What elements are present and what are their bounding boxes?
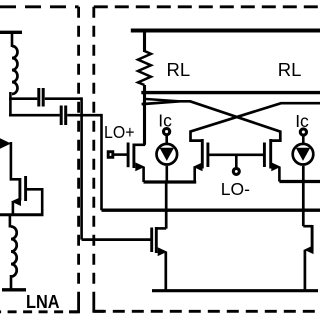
- LO+ wire to M1 gate: [114, 153, 127, 156]
- LNA box bottom-right corner piece: [69, 303, 79, 312]
- wire inductor bottom to output node: [9, 92, 12, 116]
- LO+ terminal: [108, 152, 113, 158]
- wire arrow to cascode device: [11, 142, 20, 179]
- switch M1 gate bar: [127, 143, 130, 168]
- wire rail to RL1: [143, 31, 146, 53]
- mixer box bottom-left corner piece: [94, 303, 104, 312]
- LNA dashed box top edge: [0, 5, 79, 8]
- right RF transistor channel bar: [311, 225, 314, 251]
- M1 source arrow: [135, 162, 145, 171]
- output line (long horizontal under RLs): [141, 91, 320, 94]
- cascode gate tie wire to bottom node: [26, 189, 43, 215]
- svg-text:RL: RL: [278, 59, 302, 80]
- wire node to coupling cap C1: [9, 97, 37, 100]
- common source bottom wire: [152, 289, 318, 292]
- LNA dashed box bottom edge: [0, 310, 79, 313]
- switch M2 channel bar: [201, 139, 204, 169]
- LNA dashed box right edge: [77, 7, 80, 313]
- right RF source arrow: [304, 245, 314, 254]
- wire to degeneration inductor: [9, 215, 12, 228]
- wire inductor to ground bar: [10, 275, 13, 289]
- Ic left stub: [165, 136, 168, 144]
- Ic right bottom stub / tail wire right: [302, 166, 305, 226]
- right pair source bar: [279, 180, 320, 183]
- degeneration inductor (4 loops): [11, 227, 17, 277]
- LNA bottom node wire: [0, 213, 44, 216]
- current source arrow right: [296, 148, 310, 161]
- svg-text:RL: RL: [167, 59, 191, 80]
- svg-text:LO-: LO-: [221, 179, 250, 199]
- wire RL1 bottom down to M1 drain: [143, 85, 146, 145]
- cascode node wire (long horizontal): [102, 209, 320, 212]
- svg-text:Ic: Ic: [295, 111, 309, 131]
- wire down to cascode node rail: [100, 114, 103, 210]
- M1 drain jog: [134, 144, 145, 147]
- wire C2 to cascode node: [67, 114, 101, 117]
- M1 source wire down: [142, 167, 145, 182]
- switch M2 gate bar: [206, 143, 209, 168]
- mixer VDD rail: [131, 29, 320, 33]
- switch M1 channel bar: [132, 144, 135, 169]
- tail wire left (to cascode node and RF drain): [165, 182, 168, 229]
- M2 source arrow: [193, 162, 203, 171]
- resistor RL1 zigzag: [138, 51, 151, 85]
- cross-couple diagonal 1 (left RL to M3 drain): [142, 101, 281, 140]
- capacitor C1 plates: [39, 88, 43, 107]
- cascode transistor gate bar: [24, 176, 27, 201]
- Ic right stub: [302, 136, 305, 143]
- mixer dashed box bottom edge: [94, 310, 320, 313]
- svg-text:LNA: LNA: [26, 292, 60, 312]
- left RF transistor channel bar: [155, 227, 158, 253]
- M3 source wire down: [278, 167, 281, 182]
- switch M3 channel bar: [269, 139, 272, 169]
- current source circle left: [157, 144, 178, 165]
- current source Ic left: terminal circle: [164, 129, 170, 135]
- wire node to coupling cap C2: [9, 114, 60, 117]
- right RF source wire down: [304, 250, 307, 291]
- mixer dashed box top edge: [94, 5, 320, 8]
- left RF source wire down: [164, 252, 167, 291]
- LNA supply bar (top rail stub): [0, 31, 22, 34]
- mixer dashed box left edge: [92, 7, 95, 312]
- svg-text:LO+: LO+: [104, 122, 135, 142]
- cascode source wire down: [12, 202, 15, 216]
- current source Ic right: terminal circle: [300, 129, 306, 135]
- cascode source arrow: [11, 197, 21, 206]
- LO- terminal circle: [233, 168, 239, 174]
- wire down to RF transistor gate: [80, 97, 83, 239]
- wire C1 to mixer RF gate: [45, 97, 82, 100]
- left RF transistor gate bar: [150, 228, 153, 253]
- LO- gate tie wire (M2 to M3): [208, 154, 263, 157]
- right RF transistor drain jog: [303, 225, 312, 228]
- Ic left bottom stub: [166, 166, 169, 182]
- svg-text:Ic: Ic: [158, 110, 172, 130]
- cross-couple wedge upper branch: [146, 99, 180, 101]
- M2 source wire down: [193, 167, 196, 182]
- capacitor C2 plates: [61, 106, 65, 126]
- inductor L-load (4 loops): [12, 46, 17, 94]
- wire from supply bar to load inductor: [11, 32, 14, 47]
- gate wire of left RF transistor: [82, 238, 151, 241]
- left pair source bar: [144, 180, 197, 183]
- left RF drain jog: [156, 227, 166, 230]
- M3 source arrow: [271, 162, 281, 171]
- cascode transistor channel bar: [18, 178, 21, 201]
- current source circle right: [293, 144, 314, 165]
- switch M3 gate bar: [263, 143, 266, 168]
- ground bar: [2, 288, 26, 291]
- input transistor source arrow (cropped at left edge): [0, 138, 11, 148]
- left RF source arrow: [158, 247, 168, 256]
- cross-couple diagonal 2 (M2 drain to right RL line): [191, 103, 320, 140]
- current source arrow left: [160, 148, 174, 161]
- LO- terminal stub: [235, 155, 238, 168]
